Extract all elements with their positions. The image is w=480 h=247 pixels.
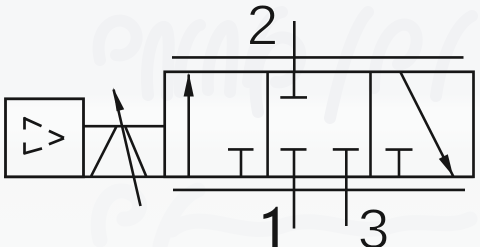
valve body outline — [165, 72, 474, 177]
wire: bottom baseline from left edge through valve bottom — [4, 176, 474, 179]
port 1 line — [293, 177, 296, 229]
flow arrow head (up) — [184, 73, 194, 97]
pilot box (actuator housing) — [6, 99, 84, 177]
bottom rail — [173, 189, 465, 192]
spring leg right — [125, 126, 146, 177]
valve position divider 2 — [369, 72, 372, 177]
valve position divider 1 — [266, 72, 269, 177]
flow arrow shaft 2->3 (right position) — [401, 72, 454, 176]
flow arrow head (down-right) — [439, 154, 453, 176]
blocked port T (left position, port 3) — [240, 149, 243, 176]
adjustment arrow head — [113, 88, 124, 112]
blocked port T (right position, port 1) — [398, 150, 401, 177]
blocked port T (mid position, port 2) — [293, 72, 296, 98]
wire: actuator top line to valve — [84, 125, 165, 128]
flow arrow shaft 1->2 (left position) — [187, 75, 190, 177]
svg-text:2: 2 — [247, 0, 279, 57]
blocked port T (mid position, port 3) — [345, 149, 348, 176]
port 2 line — [293, 21, 296, 72]
port 3 line — [345, 177, 348, 226]
spring leg left — [91, 126, 117, 177]
svg-text:3: 3 — [358, 197, 390, 247]
dashed triangle (pneumatic pilot symbol) — [24, 117, 64, 154]
adjustment arrow shaft — [114, 90, 141, 207]
top rail — [172, 56, 464, 59]
port label 1 — [263, 207, 277, 247]
blocked port T (mid position, port 1) — [293, 149, 296, 176]
